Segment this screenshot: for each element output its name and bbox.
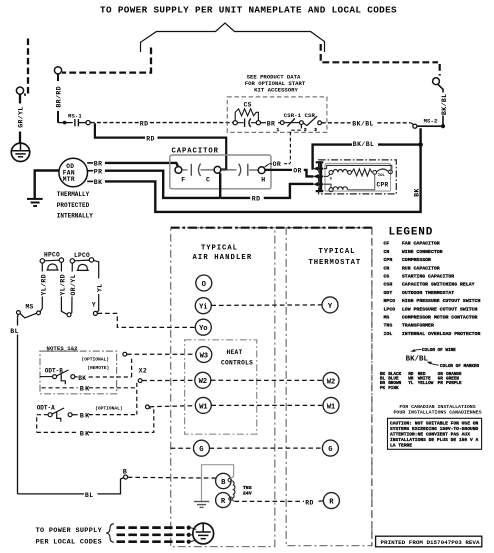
svg-text:PR: PR xyxy=(94,169,103,176)
wire YL (LPCO to Y terminal) xyxy=(94,260,99,278)
svg-text:CN: CN xyxy=(384,249,390,255)
svg-text:MTR: MTR xyxy=(63,176,75,183)
relay contact CSR-1 xyxy=(277,112,316,133)
svg-text:Y: Y xyxy=(92,301,96,308)
node BR/RD terminal xyxy=(54,67,61,74)
ground (motor chassis) xyxy=(27,199,43,206)
svg-text:RD: RD xyxy=(146,135,155,142)
wire BK (ODT-A bottom loop to W1 terminal) xyxy=(37,431,78,433)
svg-text:CAPACITOR SWITCHING RELAY: CAPACITOR SWITCHING RELAY xyxy=(402,282,475,288)
wire end dots xyxy=(187,526,191,544)
svg-text:H: H xyxy=(261,177,265,184)
wire BR/RD dashed to power supply xyxy=(62,48,151,73)
svg-text:B: B xyxy=(123,469,127,477)
svg-text:ODT-A: ODT-A xyxy=(37,404,55,411)
svg-text:MS: MS xyxy=(384,315,390,321)
svg-text:BK: BK xyxy=(78,375,86,382)
svg-text:W2: W2 xyxy=(327,378,335,386)
svg-text:W2: W2 xyxy=(199,378,207,386)
svg-text:AIR HANDLER: AIR HANDLER xyxy=(193,254,253,262)
svg-text:PER LOCAL CODES: PER LOCAL CODES xyxy=(36,538,102,546)
svg-text:FOR CANADIAN INSTALLATIONS: FOR CANADIAN INSTALLATIONS xyxy=(399,404,475,410)
svg-text:RD: RD xyxy=(252,196,261,203)
terminal O xyxy=(196,275,212,291)
box TYPICAL AIR HANDLER xyxy=(171,228,275,547)
svg-text:COMPRESSOR: COMPRESSOR xyxy=(402,257,431,263)
wire RD continues to connector pin 3 xyxy=(264,184,314,198)
svg-text:HEAT: HEAT xyxy=(227,349,243,356)
wire OR/YL (LPCO to splice) xyxy=(71,263,73,271)
legend entries xyxy=(384,241,481,337)
node Y terminal xyxy=(93,311,97,315)
capacitor plates F-C xyxy=(182,164,214,176)
label TO POWER SUPPLY PER LOCAL CODES xyxy=(36,527,103,546)
pressure switch HPCO xyxy=(40,252,64,270)
heavy top border xyxy=(171,227,372,229)
svg-text:BL: BL xyxy=(10,328,19,335)
wire BK (ODT-A to X2 node) xyxy=(72,414,77,416)
terminal W1 (air handler) xyxy=(195,397,211,413)
svg-text:ATTENTION:NE CONVIENT PAS AUX: ATTENTION:NE CONVIENT PAS AUX xyxy=(390,432,470,438)
wire pin3 to R xyxy=(324,184,331,187)
svg-text:2: 2 xyxy=(304,128,307,133)
relay contact CSR (2-3) xyxy=(303,116,321,133)
svg-text:MS-1: MS-1 xyxy=(68,112,82,119)
wire dashed to W1 xyxy=(150,406,196,407)
svg-text:CSR: CSR xyxy=(384,282,393,288)
svg-text:TO POWER SUPPLY: TO POWER SUPPLY xyxy=(36,527,103,535)
capacitor CS (start capacitor with bleed resistor) xyxy=(233,101,260,127)
compressor shell (grey) xyxy=(325,163,391,191)
thermostat terminal W2 xyxy=(323,372,339,388)
node B terminal xyxy=(124,475,128,479)
printed from box xyxy=(376,536,482,547)
svg-text:PRINTED FROM D157047P03 REVA: PRINTED FROM D157047P03 REVA xyxy=(381,539,480,546)
contactor coil MS xyxy=(17,303,41,318)
svg-text:PROTECTED: PROTECTED xyxy=(57,202,90,209)
wire B to ground (grey) xyxy=(202,465,234,502)
svg-text:IOL: IOL xyxy=(384,331,393,337)
node splice HPCO-LPCO xyxy=(67,313,71,317)
svg-text:CS: CS xyxy=(244,101,252,108)
svg-text:IOL: IOL xyxy=(378,174,386,178)
node terminal above MS-2 xyxy=(433,78,440,85)
wire Yi to Y dashed xyxy=(211,304,322,307)
wire dashed power to MS-2 terminal xyxy=(321,44,438,62)
svg-text:MS-2: MS-2 xyxy=(424,118,438,125)
svg-text:TNS: TNS xyxy=(243,485,252,491)
capacitor terminal C xyxy=(214,166,221,173)
svg-text:BK/BL: BK/BL xyxy=(353,141,375,148)
svg-text:PK: PK xyxy=(380,386,386,391)
svg-text:KIT ACCESSORY: KIT ACCESSORY xyxy=(254,86,298,93)
transformer TNS coil xyxy=(231,481,235,499)
overload IOL xyxy=(377,169,389,172)
svg-text:BK: BK xyxy=(80,413,91,421)
wire YL/RD 2 (HPCO to splice) xyxy=(60,262,62,271)
svg-text:C: C xyxy=(206,176,210,183)
wire BK/BL from junction to connector pin 1 xyxy=(378,143,421,145)
label THERMALLY PROTECTED INTERNALLY xyxy=(57,191,93,219)
svg-text:BR/RD: BR/RD xyxy=(56,86,63,108)
wire to chassis ground xyxy=(19,94,21,103)
svg-text:G: G xyxy=(328,446,332,454)
svg-text:THERMOSTAT: THERMOSTAT xyxy=(309,259,362,267)
wire G to G dashed xyxy=(210,447,323,449)
svg-text:PINK: PINK xyxy=(388,386,399,391)
wire BR (CS to CSR-1) xyxy=(261,122,267,124)
svg-text:OR: OR xyxy=(273,161,282,168)
wire RD dashed MS-1 to CS xyxy=(91,122,139,124)
connector pin arrows xyxy=(313,166,319,186)
wire R to R dashed (RD) xyxy=(232,500,234,502)
svg-text:RUN CAPACITOR: RUN CAPACITOR xyxy=(402,265,440,271)
start kit box (CS / CSR) xyxy=(245,74,306,94)
wire CSR-2 dashed down to OR node xyxy=(290,125,301,163)
compressor run winding coil xyxy=(333,187,347,190)
wire pin1 to IOL (C) xyxy=(324,165,392,169)
svg-text:YL/RD: YL/RD xyxy=(40,274,47,296)
svg-text:W3: W3 xyxy=(200,352,208,360)
terminal W2 (air handler) xyxy=(195,372,211,388)
node junction xyxy=(373,171,377,175)
svg-text:INSTALLATIONS DE PLUS DE 150 V: INSTALLATIONS DE PLUS DE 150 V A xyxy=(390,437,478,443)
svg-text:TYPICAL: TYPICAL xyxy=(319,248,356,256)
svg-text:POUR INSTALLATIONS CANADIENNES: POUR INSTALLATIONS CANADIENNES xyxy=(393,409,481,415)
terminal W3 xyxy=(196,347,212,363)
wire PR motor pin to common node xyxy=(88,169,220,198)
terminal B xyxy=(216,473,231,488)
svg-text:CF: CF xyxy=(384,241,390,247)
svg-text:STARTING CAPACITOR: STARTING CAPACITOR xyxy=(402,274,454,280)
svg-text:PR: PR xyxy=(438,381,444,386)
brace { xyxy=(106,524,114,542)
svg-text:3: 3 xyxy=(314,128,317,133)
thermostat terminal G xyxy=(322,440,338,456)
svg-text:(OPTIONAL): (OPTIONAL) xyxy=(82,357,110,363)
svg-text:TO POWER SUPPLY PER UNIT NAMEP: TO POWER SUPPLY PER UNIT NAMEPLATE AND L… xyxy=(100,5,397,16)
wire RD dashed continues xyxy=(150,122,233,124)
svg-text:LPCO: LPCO xyxy=(74,252,90,259)
node W1 terminal xyxy=(146,405,150,409)
wire BK (ODT-B lower to X2) xyxy=(42,387,78,389)
svg-text:LEGEND: LEGEND xyxy=(389,227,434,239)
node W3 terminal xyxy=(123,352,127,356)
wire BL (MS down to B loop) xyxy=(17,314,20,325)
svg-text:(OPTIONAL): (OPTIONAL) xyxy=(95,405,123,411)
svg-text:YELLOW: YELLOW xyxy=(418,381,434,386)
svg-text:ODT-B: ODT-B xyxy=(45,367,63,374)
terminal G (air handler) xyxy=(194,440,210,456)
svg-text:W1: W1 xyxy=(327,403,336,411)
capacitor terminal F xyxy=(175,167,182,174)
svg-text:COLOR OF WIRE: COLOR OF WIRE xyxy=(422,348,456,353)
svg-text:LPCO: LPCO xyxy=(384,306,396,312)
svg-text:HPCO: HPCO xyxy=(44,252,60,259)
wire pin2 to S xyxy=(324,174,330,176)
svg-text:YL: YL xyxy=(408,381,414,386)
node winding junction xyxy=(348,171,352,175)
svg-text:PURPLE: PURPLE xyxy=(446,381,462,386)
svg-text:FAN CAPACITOR: FAN CAPACITOR xyxy=(402,241,440,247)
svg-text:CONTROLS: CONTROLS xyxy=(221,360,253,367)
power wires (3 dashed) xyxy=(117,528,188,542)
svg-text:BL: BL xyxy=(85,492,94,499)
heat controls box xyxy=(185,340,257,434)
power supply brace bracket xyxy=(141,23,325,52)
svg-text:BR: BR xyxy=(94,161,103,168)
pressure switch LPCO xyxy=(70,252,94,270)
wire BK/BL vertical (inline label) xyxy=(438,84,443,92)
capacitor terminal H xyxy=(258,167,265,174)
transformer TNS terminal dots xyxy=(228,478,231,481)
wire B dashed from B terminal xyxy=(128,476,216,479)
svg-text:HPCO: HPCO xyxy=(384,298,396,304)
svg-text:HIGH PRESSURE CUTOUT SWITCH: HIGH PRESSURE CUTOUT SWITCH xyxy=(402,298,481,304)
wire BR/RD vertical xyxy=(57,74,59,81)
compressor terminal R xyxy=(329,188,333,192)
resistor winding (zigzag) xyxy=(352,169,372,176)
wire run winding to junction xyxy=(348,174,375,189)
wire W1 to W1 dashed xyxy=(211,404,323,406)
svg-text:ODT: ODT xyxy=(384,290,393,296)
thermostat terminal W1 xyxy=(323,397,339,413)
svg-text:CAUTION: NOT SUITABLE FOR USE: CAUTION: NOT SUITABLE FOR USE ON xyxy=(390,420,478,426)
svg-text:LOW PRESSURE CUTOUT SWITCH: LOW PRESSURE CUTOUT SWITCH xyxy=(402,306,478,312)
wire G stub dashed xyxy=(171,447,194,449)
compressor start winding coil xyxy=(333,169,347,172)
thermostat terminal Y xyxy=(322,297,338,313)
node junction dot BK/BL-BK xyxy=(418,142,423,147)
ground (circled earth, top-left) xyxy=(11,143,29,161)
svg-text:CPR: CPR xyxy=(377,182,389,189)
legend separator dashed xyxy=(371,228,373,546)
wire BK (ODT-B to W3 terminal) xyxy=(75,376,78,378)
svg-text:(REMOTE): (REMOTE) xyxy=(87,365,109,371)
wire dashed to W3 xyxy=(127,353,196,355)
wire RD solid MS-1 branch to capacitor C xyxy=(95,123,145,137)
svg-text:OR: OR xyxy=(293,167,302,174)
svg-text:BK: BK xyxy=(413,188,420,197)
svg-text:INTERNAL OVERLOAD PROTECTOR: INTERNAL OVERLOAD PROTECTOR xyxy=(402,331,481,337)
wire BK motor pin to MS-2 node xyxy=(87,128,420,212)
wire motor to ground xyxy=(35,171,60,199)
svg-text:LA TERRE: LA TERRE xyxy=(390,443,412,449)
svg-text:OR/YL: OR/YL xyxy=(70,274,77,296)
svg-text:SYSTEMS EXCEEDING 150V-TO-GROU: SYSTEMS EXCEEDING 150V-TO-GROUND xyxy=(390,426,478,432)
wire BR motor pin to capacitor F xyxy=(87,161,178,168)
wire GR/YL dashed from power supply xyxy=(24,39,28,95)
svg-text:CR: CR xyxy=(384,265,390,271)
terminal Yi xyxy=(195,298,211,314)
wire W2 to W2 dashed xyxy=(211,379,323,381)
svg-text:TRANSFORMER: TRANSFORMER xyxy=(402,323,434,329)
capacitor plates C-H xyxy=(221,164,258,176)
label FOR CANADIAN INSTALLATIONS xyxy=(393,404,481,415)
wire dashed X2 down to ODT-A xyxy=(136,383,138,415)
svg-text:YL/RD: YL/RD xyxy=(59,274,66,296)
svg-text:CS: CS xyxy=(384,274,390,280)
wire YL/RD 1 (HPCO to MS) xyxy=(41,263,43,271)
svg-text:GR/YL: GR/YL xyxy=(17,106,24,128)
svg-text:COLOR OF MARKER: COLOR OF MARKER xyxy=(440,364,479,369)
color code table xyxy=(380,372,462,391)
svg-text:G: G xyxy=(199,446,203,454)
svg-text:BK/BL: BK/BL xyxy=(352,120,374,127)
svg-text:W1: W1 xyxy=(199,403,208,411)
ground (transformer) xyxy=(194,502,210,508)
svg-text:TYPICAL: TYPICAL xyxy=(201,244,238,252)
wire RD solid continues to C xyxy=(158,138,227,170)
svg-text:CSR-1 CSR: CSR-1 CSR xyxy=(284,112,316,119)
svg-text:TNS: TNS xyxy=(384,323,393,329)
stubs to earth circle xyxy=(191,528,197,542)
svg-text:BK: BK xyxy=(80,386,91,394)
wire C to CPR R (RD) xyxy=(219,173,221,198)
compressor terminal S xyxy=(329,170,333,174)
compressor CPR box xyxy=(319,160,397,194)
wire BK/BL dashed CSR to MS-2 xyxy=(322,122,351,124)
svg-text:Yi: Yi xyxy=(199,304,208,312)
svg-text:BK/BL: BK/BL xyxy=(406,356,429,364)
svg-text:WIRE CONNECTOR: WIRE CONNECTOR xyxy=(402,249,443,255)
svg-text:F: F xyxy=(181,176,185,183)
svg-text:Yo: Yo xyxy=(199,325,207,333)
svg-text:X2: X2 xyxy=(139,368,148,375)
ground (circled earth, bottom) xyxy=(193,523,214,544)
caution box xyxy=(388,418,482,449)
svg-text:1: 1 xyxy=(277,128,280,133)
svg-text:BK: BK xyxy=(94,179,103,186)
contactor MS-2 xyxy=(411,118,445,129)
svg-text:OUTDOOR THERMOSTAT: OUTDOOR THERMOSTAT xyxy=(402,290,454,296)
thermostat terminal R xyxy=(323,493,339,509)
svg-text:BR: BR xyxy=(267,121,276,128)
svg-text:CPR: CPR xyxy=(384,257,393,263)
svg-text:BK/BL: BK/BL xyxy=(441,93,448,115)
svg-text:INTERNALLY: INTERNALLY xyxy=(57,213,93,220)
motor OD FAN MTR xyxy=(59,158,88,187)
svg-text:MS: MS xyxy=(26,303,34,310)
connector CN bar xyxy=(316,162,324,192)
svg-text:BK: BK xyxy=(80,430,91,438)
terminal R (air handler) xyxy=(216,493,231,508)
box TYPICAL THERMOSTAT xyxy=(286,228,372,546)
svg-text:RD: RD xyxy=(305,499,314,506)
node GR/YL terminal xyxy=(16,87,23,94)
contactor MS-1 xyxy=(58,112,90,126)
wire dashed X2 to W2 xyxy=(142,379,194,381)
wire Y to Yo (dashed) xyxy=(98,313,196,327)
svg-text:THERMALLY: THERMALLY xyxy=(57,191,90,198)
thermostat switch ODT-A xyxy=(37,404,72,432)
svg-text:RD: RD xyxy=(140,121,149,128)
svg-text:COMPRESSOR MOTOR CONTACTOR: COMPRESSOR MOTOR CONTACTOR xyxy=(402,315,478,321)
svg-text:YL: YL xyxy=(97,283,104,292)
thermostat switch ODT-B xyxy=(40,367,75,384)
terminal Yo xyxy=(195,319,211,335)
svg-text:24V: 24V xyxy=(243,491,252,497)
wire OR from H to connector pin 2 xyxy=(265,161,314,176)
